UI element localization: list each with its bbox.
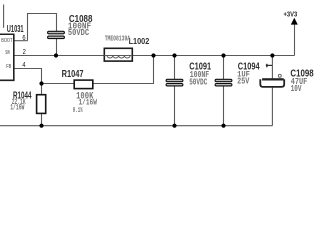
svg-text:0.1%: 0.1% xyxy=(73,107,83,115)
svg-text:FB: FB xyxy=(6,64,11,70)
svg-text:2: 2 xyxy=(23,49,26,56)
svg-text:SW: SW xyxy=(5,50,10,56)
svg-text:U1031: U1031 xyxy=(7,24,24,35)
svg-text:TME08139A: TME08139A xyxy=(105,36,131,44)
svg-text:1/16W: 1/16W xyxy=(79,98,98,108)
svg-text:25V: 25V xyxy=(237,77,250,87)
svg-text:10V: 10V xyxy=(291,83,302,94)
svg-text:50VDC: 50VDC xyxy=(68,27,89,38)
svg-text:50VDC: 50VDC xyxy=(189,77,207,87)
svg-text:4: 4 xyxy=(22,62,25,69)
svg-text:1/16W: 1/16W xyxy=(10,103,25,113)
svg-text:6: 6 xyxy=(22,35,25,42)
svg-text:BOOT: BOOT xyxy=(1,38,12,44)
svg-text:L1002: L1002 xyxy=(129,37,150,46)
svg-text:+3V3: +3V3 xyxy=(284,11,298,18)
svg-text:R1047: R1047 xyxy=(62,69,84,80)
